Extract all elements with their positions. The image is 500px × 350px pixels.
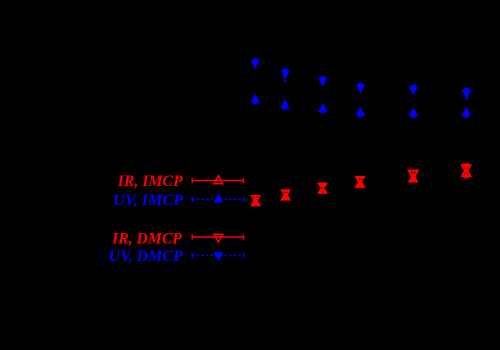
svg-text:UV, DMCP: UV, DMCP: [109, 248, 183, 265]
svg-text:UV, IMCP: UV, IMCP: [113, 192, 183, 209]
svg-text:IR, DMCP: IR, DMCP: [111, 231, 182, 248]
svg-text:IR, IMCP: IR, IMCP: [117, 173, 183, 190]
